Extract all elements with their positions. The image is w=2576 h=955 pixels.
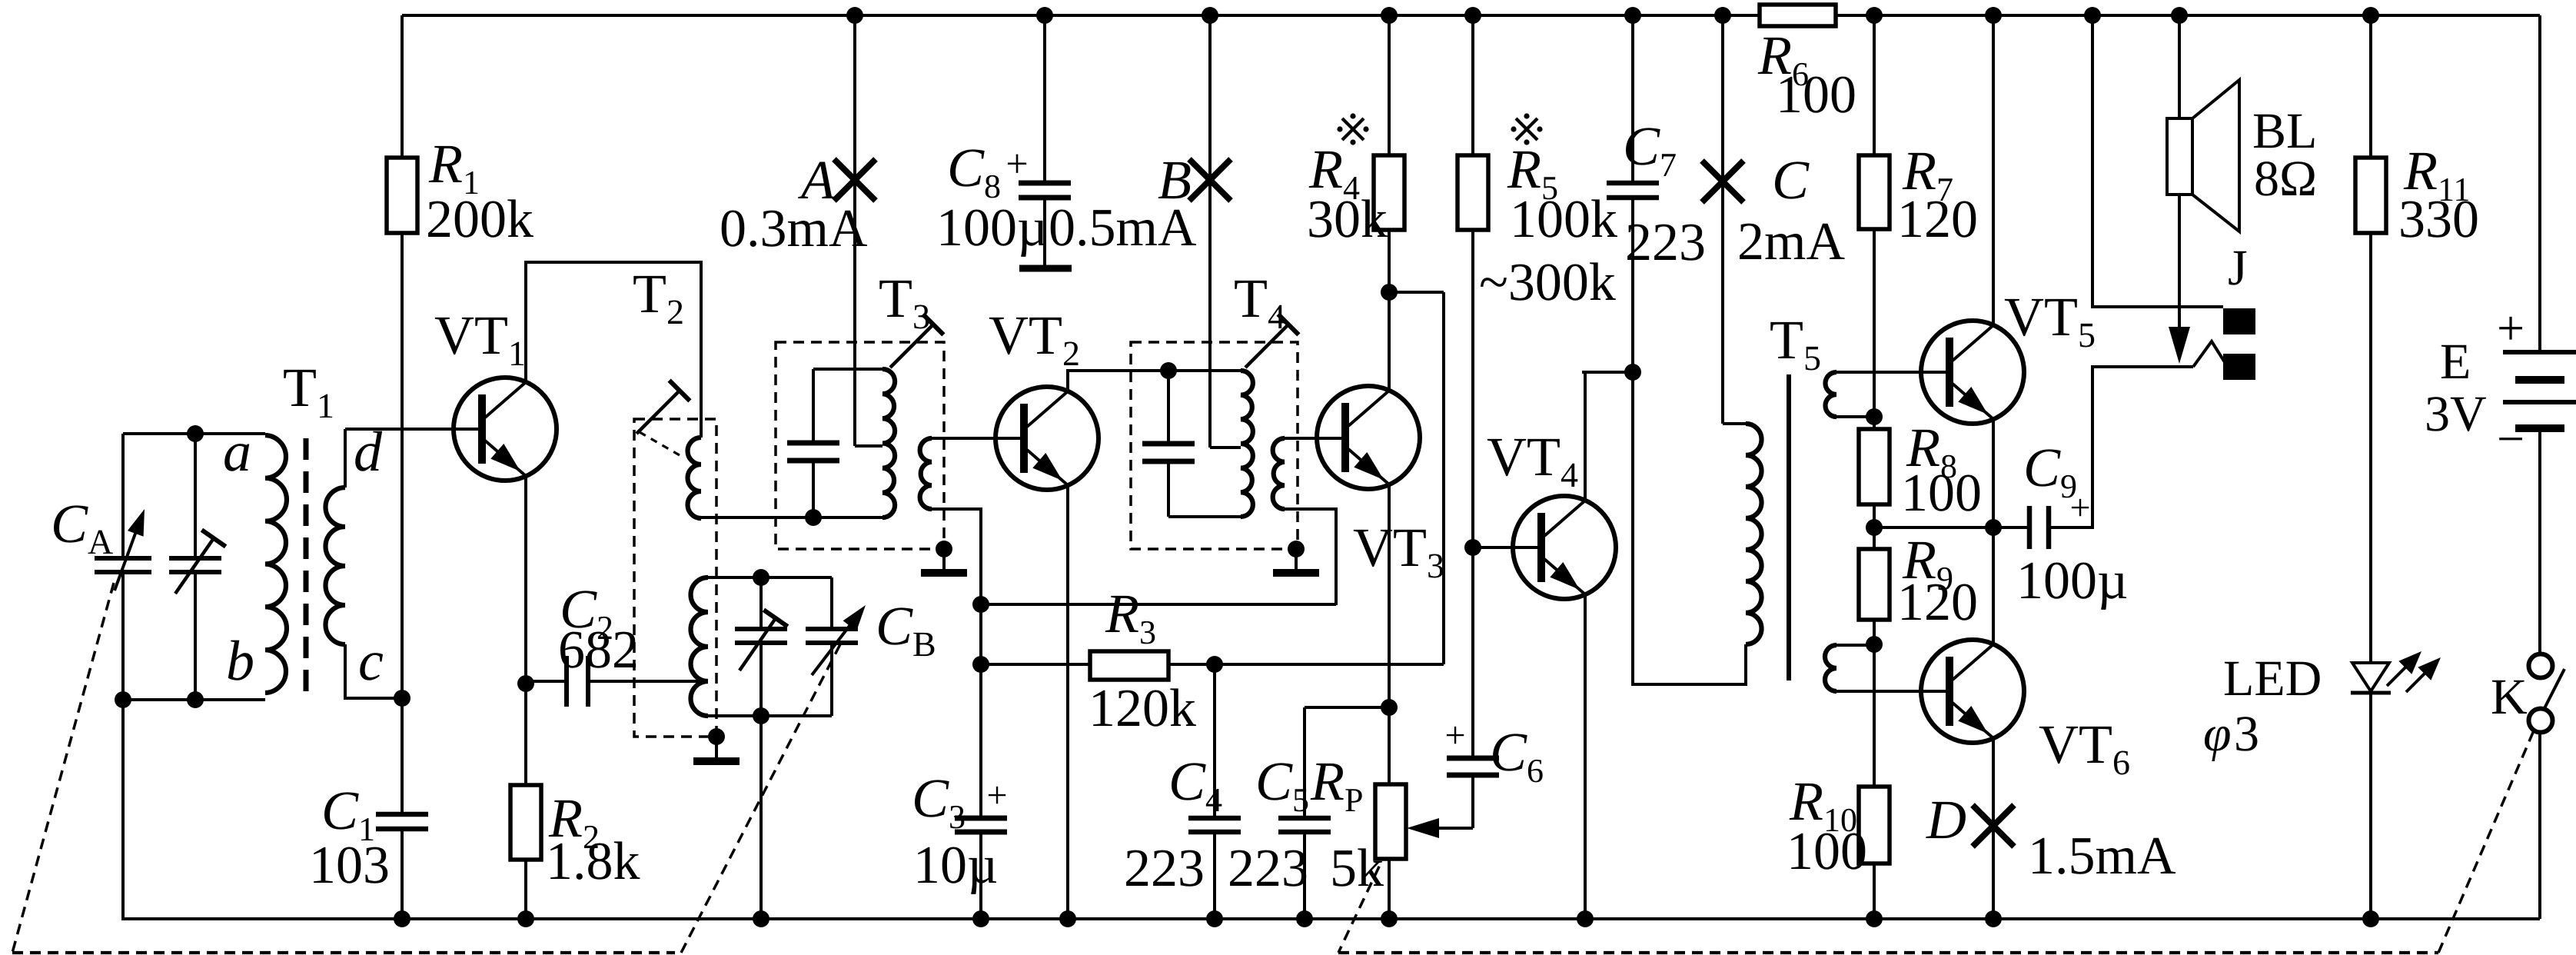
svg-text:3V: 3V xyxy=(2425,386,2487,442)
svg-text:2mA: 2mA xyxy=(1737,212,1845,271)
svg-text:d: d xyxy=(354,421,383,484)
svg-text:1.5mA: 1.5mA xyxy=(2028,827,2176,886)
svg-text:100k: 100k xyxy=(1510,190,1617,249)
svg-text:200k: 200k xyxy=(426,190,533,249)
svg-text:682: 682 xyxy=(558,621,639,680)
svg-text:100µ: 100µ xyxy=(936,198,1048,258)
svg-text:K: K xyxy=(2491,669,2528,725)
svg-text:J: J xyxy=(2228,240,2248,296)
svg-text:−: − xyxy=(2497,411,2524,466)
svg-text:+: + xyxy=(2497,301,2524,355)
svg-text:30k: 30k xyxy=(1307,190,1388,249)
svg-text:D: D xyxy=(1926,789,1966,850)
svg-text:223: 223 xyxy=(1228,839,1308,898)
svg-text:LED: LED xyxy=(2223,651,2322,707)
svg-text:~300k: ~300k xyxy=(1479,253,1616,312)
svg-text:120: 120 xyxy=(1897,190,1978,249)
svg-text:100µ: 100µ xyxy=(2016,551,2128,611)
svg-text:10µ: 10µ xyxy=(913,836,998,895)
svg-text:+: + xyxy=(2069,487,2090,528)
svg-text:8Ω: 8Ω xyxy=(2254,151,2317,207)
svg-text:5k: 5k xyxy=(1330,839,1384,898)
svg-text:0.5mA: 0.5mA xyxy=(1049,198,1197,258)
svg-text:b: b xyxy=(226,630,254,693)
svg-text:C: C xyxy=(1772,149,1810,211)
svg-text:120: 120 xyxy=(1897,573,1978,632)
svg-text:a: a xyxy=(223,421,251,484)
svg-text:0.3mA: 0.3mA xyxy=(720,199,868,258)
svg-text:120k: 120k xyxy=(1089,679,1196,738)
svg-text:E: E xyxy=(2440,334,2471,390)
svg-text:100: 100 xyxy=(1787,822,1867,881)
svg-text:330: 330 xyxy=(2398,190,2479,249)
svg-text:100: 100 xyxy=(1776,65,1856,125)
svg-text:223: 223 xyxy=(1625,213,1706,272)
svg-text:100: 100 xyxy=(1901,464,1982,523)
svg-text:1.8k: 1.8k xyxy=(546,832,640,891)
svg-text:+: + xyxy=(1005,142,1028,186)
svg-text:+: + xyxy=(1444,715,1465,756)
svg-text:c: c xyxy=(358,630,384,693)
svg-text:223: 223 xyxy=(1124,839,1205,898)
svg-text:103: 103 xyxy=(309,836,390,895)
svg-text:φ: φ xyxy=(2203,706,2232,762)
svg-text:3: 3 xyxy=(2234,706,2259,762)
svg-text:+: + xyxy=(986,775,1007,816)
